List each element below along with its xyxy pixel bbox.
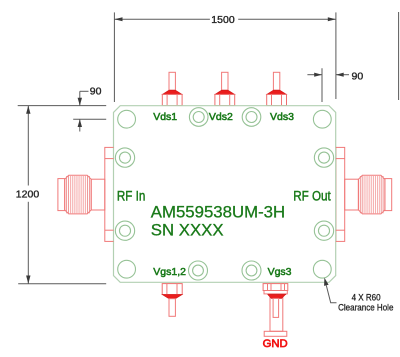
svg-text:RF Out: RF Out — [293, 189, 331, 204]
svg-text:Vds3: Vds3 — [270, 111, 294, 123]
svg-text:Clearance Hole: Clearance Hole — [338, 302, 393, 313]
svg-text:SN XXXX: SN XXXX — [151, 221, 224, 240]
svg-text:1500: 1500 — [211, 14, 235, 26]
svg-text:AM559538UM-3H: AM559538UM-3H — [151, 203, 285, 222]
svg-text:GND: GND — [263, 338, 288, 350]
svg-text:Vgs1,2: Vgs1,2 — [153, 266, 186, 278]
svg-text:90: 90 — [90, 86, 102, 98]
svg-text:1200: 1200 — [16, 189, 40, 201]
svg-text:RF In: RF In — [117, 189, 145, 204]
svg-text:Vgs3: Vgs3 — [268, 266, 292, 278]
svg-text:Vds2: Vds2 — [209, 111, 233, 123]
svg-text:Vds1: Vds1 — [153, 111, 177, 123]
svg-text:90: 90 — [352, 71, 364, 83]
